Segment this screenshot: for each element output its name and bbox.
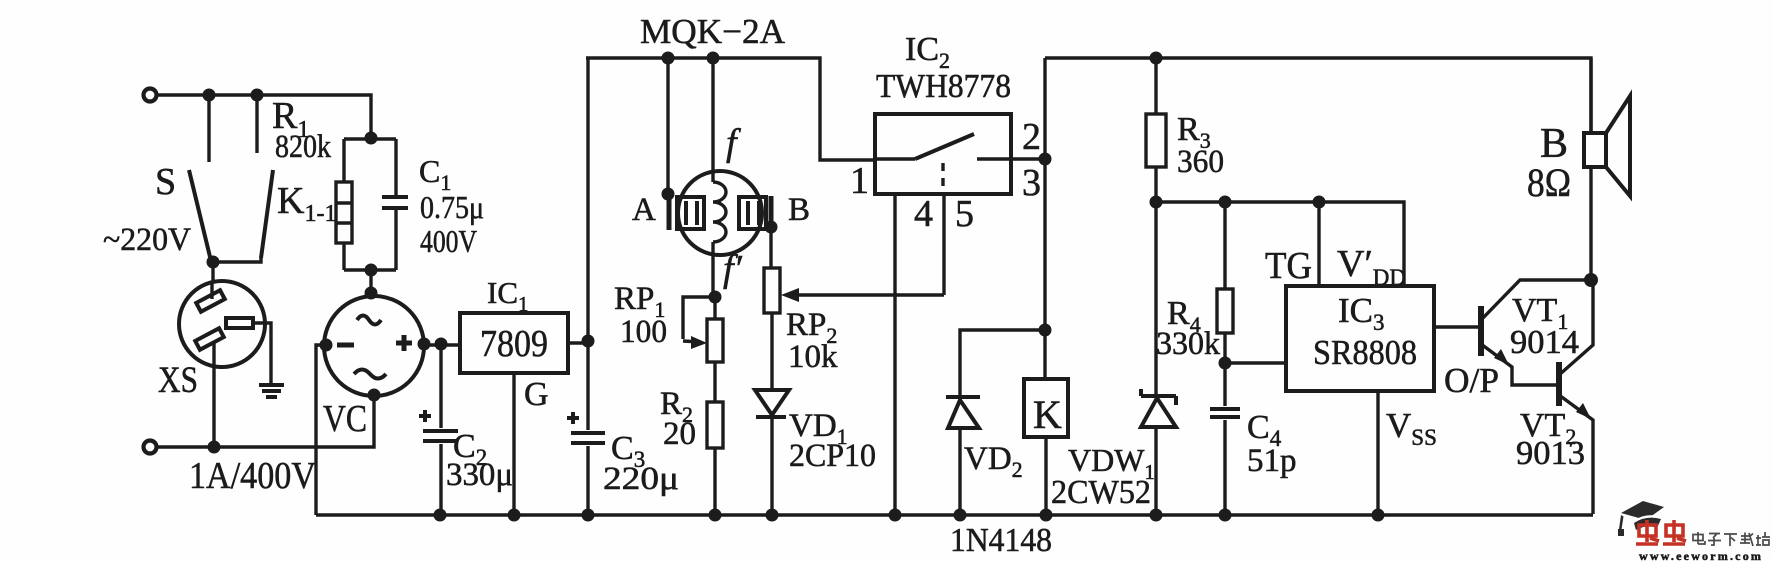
terminal top-left (AC live) — [144, 89, 157, 102]
node SK-bottom — [207, 256, 220, 269]
svg-text:IC3: IC3 — [1338, 291, 1385, 335]
svg-text:9013: 9013 — [1516, 435, 1585, 472]
bridge rectifier VC — [320, 287, 425, 402]
svg-text:XS: XS — [158, 360, 198, 401]
switch S — [189, 95, 211, 261]
svg-text:VSS: VSS — [1386, 406, 1437, 450]
label 20 — [663, 416, 696, 452]
svg-text:51p: 51p — [1247, 443, 1297, 479]
socket XS — [179, 281, 265, 447]
capacitor C2 — [419, 345, 458, 515]
label 0.75u — [420, 189, 484, 225]
wire VC plus to IC1 — [418, 338, 461, 351]
svg-text:K: K — [1033, 392, 1062, 437]
label 2CP10 — [789, 438, 876, 474]
svg-text:1: 1 — [850, 160, 869, 202]
label 820k — [275, 129, 331, 165]
wire IC2 out vertical — [1039, 58, 1052, 379]
svg-text:100: 100 — [620, 314, 667, 350]
logo eeworm red worm characters — [1636, 520, 1686, 544]
sensor heater coil f — [713, 58, 726, 296]
svg-text:330μ: 330μ — [446, 457, 513, 493]
label C3 — [611, 430, 645, 472]
pin 3 label — [1022, 162, 1041, 204]
svg-text:9014: 9014 — [1510, 324, 1579, 361]
label 400V — [420, 223, 477, 259]
transistor VT1 — [1481, 280, 1591, 385]
IC1 7809 box — [460, 313, 568, 373]
svg-text:1N4148: 1N4148 — [950, 522, 1052, 559]
terminal bottom-left (AC neutral) — [144, 441, 157, 454]
svg-text:10k: 10k — [788, 339, 838, 375]
svg-text:2: 2 — [1022, 116, 1041, 158]
svg-text:S: S — [155, 161, 176, 203]
svg-text:MQK−2A: MQK−2A — [640, 12, 786, 51]
node K-top — [251, 89, 264, 102]
svg-text:2CP10: 2CP10 — [789, 438, 876, 474]
svg-text:7809: 7809 — [480, 323, 548, 365]
svg-text:B: B — [788, 192, 810, 228]
ground (socket earth) — [253, 323, 284, 397]
pin 1 label — [850, 160, 869, 202]
ground rail bottom — [316, 509, 1593, 522]
resistor R3 — [1146, 58, 1166, 209]
label VSS — [1386, 406, 1437, 450]
label XS — [158, 360, 198, 401]
label C2 — [453, 428, 487, 470]
label IC2 — [905, 31, 950, 73]
wire to socket — [211, 262, 214, 281]
wire 9V rail left segment — [586, 58, 875, 341]
IC3 SR8808 box — [1286, 286, 1434, 391]
label 100 — [620, 314, 667, 350]
resistor R2 — [707, 402, 723, 515]
pin 5 wire — [942, 194, 945, 295]
svg-text:SR8808: SR8808 — [1313, 333, 1417, 372]
transistor VT2 — [1559, 280, 1593, 514]
label R4 — [1167, 295, 1201, 337]
zener VDW1 — [1141, 202, 1176, 515]
svg-text:~220V: ~220V — [103, 222, 191, 258]
label 330k — [1156, 326, 1220, 362]
svg-text:f: f — [726, 122, 741, 164]
pin 4 wire — [893, 194, 896, 515]
label 1N4148 — [950, 522, 1052, 559]
label K1-1 — [277, 180, 336, 227]
wire top input — [156, 95, 371, 139]
svg-text:8Ω: 8Ω — [1527, 160, 1571, 205]
label RP1 — [614, 281, 665, 322]
svg-text:www.eeworm.com: www.eeworm.com — [1639, 549, 1763, 561]
diode VD2 — [946, 330, 1045, 515]
svg-text:4: 4 — [914, 193, 933, 235]
pin O/P wire — [1434, 325, 1478, 328]
svg-text:360: 360 — [1177, 144, 1224, 180]
label 8ohm — [1527, 160, 1571, 205]
capacitor C3 — [567, 343, 605, 515]
label ~220V — [103, 222, 191, 258]
label R2 — [660, 386, 693, 427]
pin TG wire — [1317, 202, 1320, 286]
pin 4 label — [914, 193, 933, 235]
label 2CW52 — [1051, 474, 1151, 511]
svg-text:VD2: VD2 — [964, 441, 1023, 482]
node S-top — [203, 89, 216, 102]
label 9013 — [1516, 435, 1585, 472]
relay K — [1024, 379, 1068, 515]
electrode B — [739, 196, 778, 268]
label TG — [1265, 245, 1312, 287]
svg-text:3: 3 — [1022, 162, 1041, 204]
node VT collectors — [1584, 273, 1598, 287]
logo text dianzi xiazaizhan — [1693, 532, 1770, 546]
svg-text:K1-1: K1-1 — [277, 180, 336, 227]
wire VC minus to ground rail — [316, 345, 326, 515]
resistor R1 — [336, 139, 352, 270]
IC2 TWH8778 box — [875, 114, 1011, 194]
potentiometer RP1 — [683, 291, 723, 403]
svg-text:20: 20 — [663, 416, 696, 452]
potentiometer RP2 — [764, 268, 944, 388]
svg-text:TWH8778: TWH8778 — [876, 68, 1011, 105]
label 330u — [446, 457, 513, 493]
R1C1 top bar — [344, 132, 396, 145]
svg-text:330k: 330k — [1156, 326, 1220, 362]
label VD2 — [964, 441, 1023, 482]
pin G of IC1 — [514, 373, 549, 515]
label VT2 — [1520, 407, 1576, 449]
electrode A — [662, 58, 705, 230]
label f' — [723, 248, 743, 290]
wire AC neutral — [156, 395, 374, 454]
label 220u — [603, 461, 679, 497]
svg-text:G: G — [524, 376, 549, 413]
label V'DD — [1337, 243, 1406, 290]
node rail-A — [662, 52, 675, 65]
label R3 — [1177, 111, 1211, 153]
svg-text:820k: 820k — [275, 129, 331, 165]
R1C1 bottom bar — [344, 264, 396, 297]
pin 2-3 output wire — [1011, 153, 1052, 166]
svg-text:A: A — [632, 192, 656, 228]
wire top rail right segment — [1045, 52, 1591, 134]
label VDW1 — [1068, 442, 1155, 484]
label VD1 — [789, 408, 848, 449]
speaker B — [1584, 58, 1630, 280]
label MQK-2A — [640, 12, 786, 51]
label f — [726, 122, 741, 164]
svg-text:2CW52: 2CW52 — [1051, 474, 1151, 511]
label 51p — [1247, 443, 1297, 479]
resistor R4 — [1217, 202, 1286, 370]
node rail-f — [707, 52, 720, 65]
label TWH8778 — [876, 68, 1011, 105]
label VT1 — [1512, 292, 1568, 334]
label R1 — [272, 95, 309, 143]
label 360 — [1177, 144, 1224, 180]
diode VD1 — [755, 390, 789, 515]
svg-text:IC2: IC2 — [905, 31, 950, 73]
label B — [788, 192, 810, 228]
capacitor C1 — [382, 139, 408, 270]
gas sensor MQK circle — [678, 171, 762, 255]
label O/P — [1444, 361, 1499, 400]
label C4 — [1247, 409, 1282, 451]
svg-text:1A/400V: 1A/400V — [189, 455, 316, 497]
label IC1 — [487, 275, 529, 316]
logo url — [1639, 549, 1763, 561]
label S — [155, 161, 176, 203]
logo eeworm graduation cap — [1618, 501, 1664, 536]
label 1A/400V — [189, 455, 316, 497]
svg-text:5: 5 — [955, 193, 974, 235]
label 10k — [788, 339, 838, 375]
svg-text:TG: TG — [1265, 245, 1312, 287]
svg-text:IC1: IC1 — [487, 275, 529, 316]
svg-text:O/P: O/P — [1444, 361, 1499, 400]
switch K1-1 — [213, 95, 273, 262]
wire VDD rail — [1156, 196, 1404, 287]
label B speaker — [1540, 121, 1568, 167]
label VC — [323, 398, 367, 440]
label C1 — [419, 153, 451, 195]
wire IC1 output — [568, 335, 595, 348]
pin 5 label — [955, 193, 974, 235]
svg-text:V′DD: V′DD — [1337, 243, 1406, 290]
svg-text:220μ: 220μ — [603, 461, 679, 497]
capacitor C4 — [1210, 363, 1240, 515]
label 9014 — [1510, 324, 1579, 361]
svg-text:400V: 400V — [420, 223, 477, 259]
pin 2 label — [1022, 116, 1041, 158]
svg-text:f′: f′ — [723, 248, 743, 290]
svg-text:VC: VC — [323, 398, 367, 440]
label RP2 — [786, 307, 837, 348]
label A — [632, 192, 656, 228]
pin VSS wire — [1376, 391, 1379, 515]
svg-text:0.75μ: 0.75μ — [420, 189, 484, 225]
